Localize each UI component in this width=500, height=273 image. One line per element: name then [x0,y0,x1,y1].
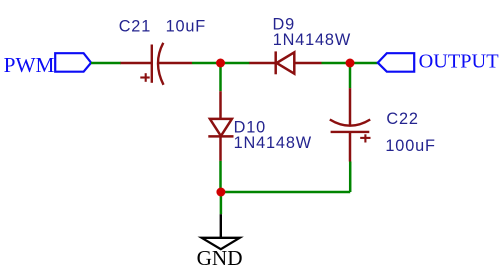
straight plate [331,131,370,133]
bottom rail wire [221,191,350,194]
wire bottom junction to GND [220,192,223,214]
capacitor C22 [330,88,371,161]
wire junction to D9 [221,62,250,65]
curved plate [158,43,164,85]
pin (top) [219,91,222,119]
triangle [277,52,295,73]
pin 1 (left) [121,62,152,65]
triangle [210,119,232,136]
svg-text:1N4148W: 1N4148W [273,31,351,49]
svg-text:C21: C21 [119,18,151,36]
pin (bottom) [219,136,222,161]
pin (top) [349,88,352,126]
curved plate [330,120,370,126]
junction dot 3 [216,188,225,197]
junction dot 1 [216,59,225,68]
svg-text:1N4148W: 1N4148W [234,134,312,152]
wire C22 to bottom rail corner [349,162,352,193]
svg-text:PWM: PWM [4,53,55,77]
ground GND [202,214,240,249]
svg-text:GND: GND [197,246,243,270]
wire D10 to bottom junction [219,161,222,192]
pin 2 (right) [158,62,192,65]
wire junction2 down to C22 [349,63,352,88]
wire D9 to junction2 [322,62,351,65]
pin (bottom) [349,132,352,162]
wire PWM to C21 [91,62,121,65]
junction dot 2 [346,59,355,68]
svg-text:100uF: 100uF [385,137,435,155]
wire C21 to junction [192,62,221,65]
pin (right) [294,62,321,65]
capacitor C21 [121,43,193,85]
pin (left) [249,62,275,65]
svg-text:OUTPUT: OUTPUT [419,51,500,73]
wire junction1 down to D10 [219,63,222,91]
cathode bar [208,135,233,138]
cathode bar [274,51,277,74]
diode D9 [249,51,321,74]
plus sign [140,76,149,78]
plus sign [360,137,370,139]
wire junction2 to OUTPUT [350,62,378,65]
svg-text:C22: C22 [386,110,418,128]
diode D10 [208,91,233,161]
port PWM [55,53,91,71]
straight plate [151,45,153,83]
svg-text:10uF: 10uF [166,18,207,36]
port OUTPUT [378,53,414,71]
